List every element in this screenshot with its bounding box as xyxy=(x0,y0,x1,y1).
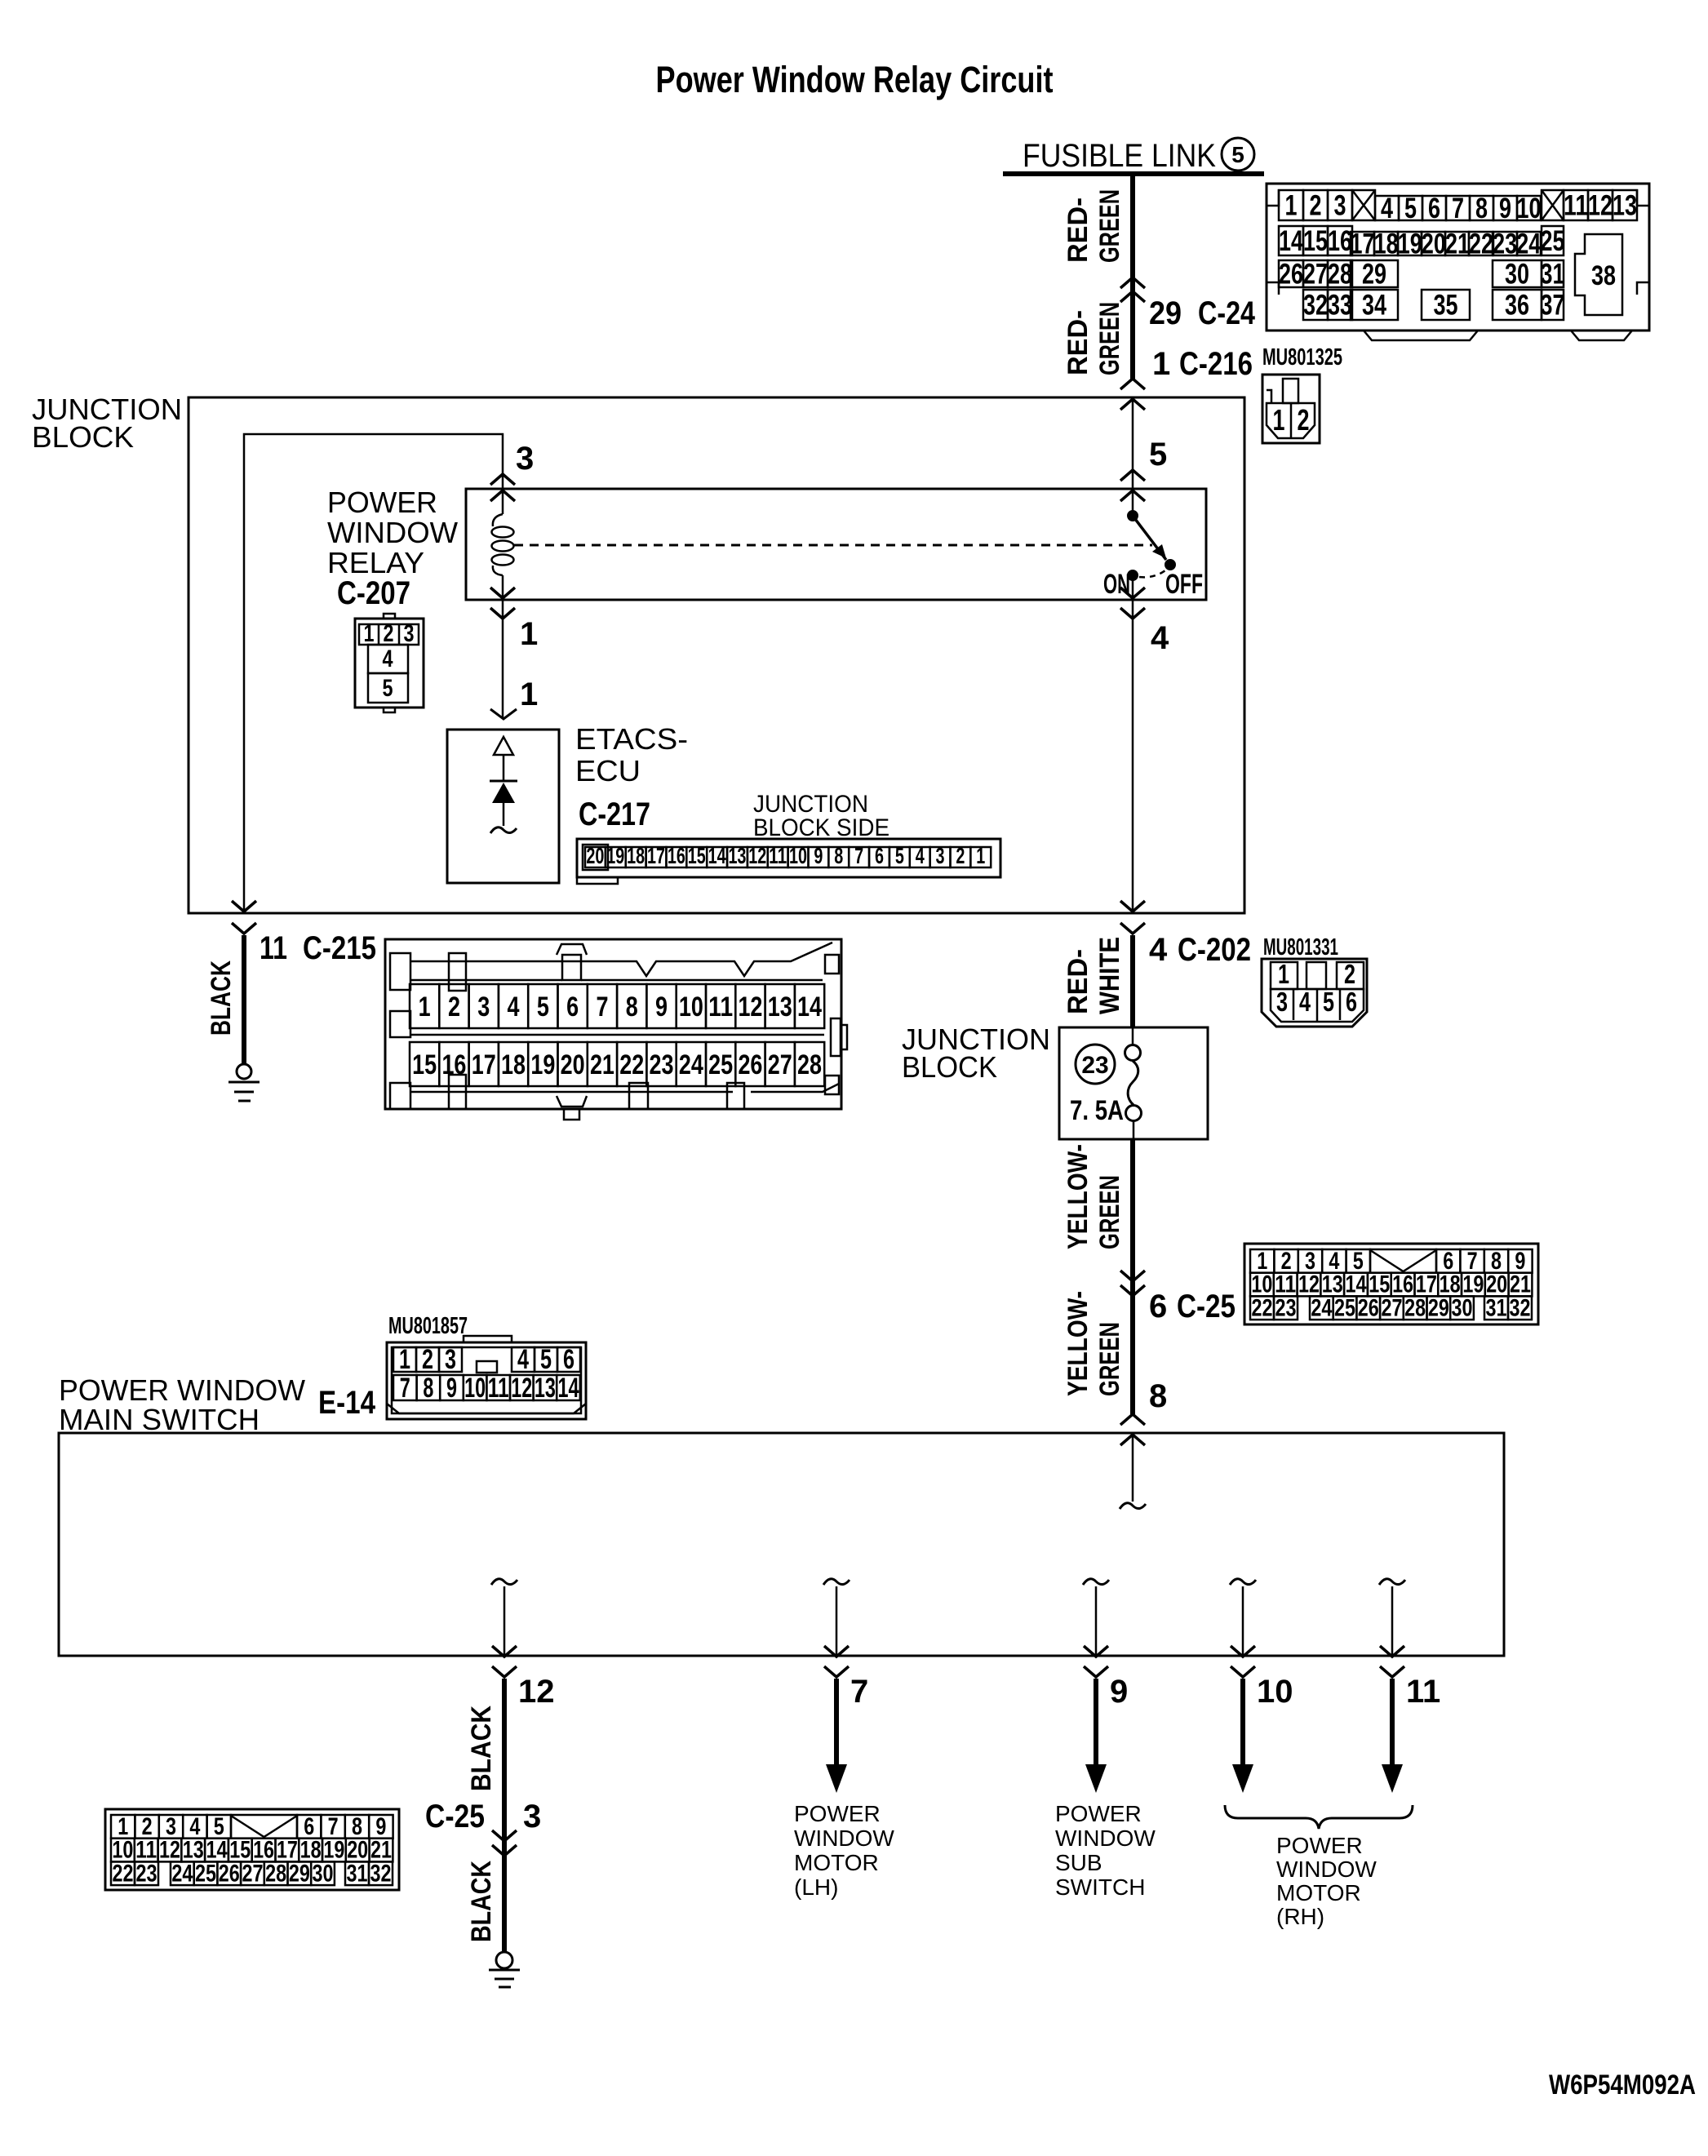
svg-text:12: 12 xyxy=(738,991,762,1023)
wire: C-202 pin 4 to fuse (RED-WHITE, thick) xyxy=(1130,935,1135,1027)
svg-text:2: 2 xyxy=(1310,190,1322,222)
ETACS internal: break squiggle xyxy=(490,827,517,833)
svg-text:MOTOR: MOTOR xyxy=(794,1850,879,1875)
ETACS internal: diode xyxy=(490,780,517,783)
svg-text:12: 12 xyxy=(1588,190,1613,222)
svg-text:22: 22 xyxy=(1252,1294,1273,1321)
svg-text:1: 1 xyxy=(364,620,375,647)
fuse element xyxy=(1132,1027,1134,1045)
svg-text:C-25: C-25 xyxy=(425,1799,485,1834)
svg-text:7: 7 xyxy=(400,1373,410,1404)
svg-text:25: 25 xyxy=(1334,1294,1355,1321)
svg-text:26: 26 xyxy=(1279,259,1303,291)
svg-text:BLACK: BLACK xyxy=(466,1706,497,1791)
svg-text:4: 4 xyxy=(1299,987,1311,1017)
main switch box bottom crossing chevrons (pin 7) xyxy=(824,1646,849,1657)
svg-text:WINDOW: WINDOW xyxy=(1276,1857,1377,1882)
svg-text:1: 1 xyxy=(1273,403,1285,437)
svg-text:28: 28 xyxy=(265,1860,286,1887)
svg-text:21: 21 xyxy=(590,1049,614,1080)
svg-text:5: 5 xyxy=(1323,987,1334,1017)
svg-text:RED-: RED- xyxy=(1063,949,1094,1014)
relay switch pivot xyxy=(1129,512,1138,521)
svg-text:1: 1 xyxy=(520,616,538,652)
svg-text:31: 31 xyxy=(1541,259,1565,291)
svg-text:1: 1 xyxy=(419,991,431,1023)
svg-text:7: 7 xyxy=(596,991,608,1023)
svg-text:22: 22 xyxy=(1469,228,1493,260)
svg-text:28: 28 xyxy=(1328,259,1352,291)
svg-text:(LH): (LH) xyxy=(794,1874,838,1900)
svg-text:29: 29 xyxy=(289,1860,310,1887)
svg-text:32: 32 xyxy=(1303,290,1328,322)
svg-text:3: 3 xyxy=(936,843,945,868)
svg-text:22: 22 xyxy=(113,1860,134,1887)
svg-text:WHITE: WHITE xyxy=(1094,937,1125,1014)
svg-text:30: 30 xyxy=(1505,259,1529,291)
svg-text:2: 2 xyxy=(384,620,394,647)
svg-text:BLOCK: BLOCK xyxy=(902,1050,997,1084)
svg-text:11: 11 xyxy=(1564,190,1588,222)
svg-text:9: 9 xyxy=(814,843,823,868)
ETACS-ECU box xyxy=(447,730,559,883)
junction block outline xyxy=(189,397,1244,913)
svg-text:12: 12 xyxy=(518,1674,555,1710)
svg-text:6: 6 xyxy=(563,1344,575,1375)
svg-text:16: 16 xyxy=(668,843,685,868)
wire: pin 8 stub inside main switch xyxy=(1132,1433,1134,1502)
svg-text:WINDOW: WINDOW xyxy=(794,1826,894,1851)
svg-text:11: 11 xyxy=(260,930,287,966)
connector E-14 MU801857 drawing xyxy=(387,1336,586,1419)
svg-text:32: 32 xyxy=(1510,1294,1531,1321)
svg-text:C-202: C-202 xyxy=(1178,932,1251,968)
svg-text:FUSIBLE LINK: FUSIBLE LINK xyxy=(1023,138,1216,174)
svg-text:15: 15 xyxy=(412,1049,437,1080)
svg-text:13: 13 xyxy=(728,843,746,868)
ground symbol (left) xyxy=(237,1064,251,1079)
svg-text:4: 4 xyxy=(1381,193,1393,224)
power window relay box xyxy=(466,489,1206,600)
svg-text:ON: ON xyxy=(1103,569,1130,600)
svg-text:3: 3 xyxy=(404,620,415,647)
wire: main switch internal stub pin 11 xyxy=(1379,1579,1405,1585)
relay box bottom crossing chevrons (pin 1) xyxy=(490,588,515,598)
main switch box bottom crossing chevrons (pin 9) xyxy=(1084,1646,1108,1657)
wire: main switch internal stub pin 12 xyxy=(491,1579,517,1585)
svg-text:(RH): (RH) xyxy=(1276,1904,1324,1929)
svg-text:4: 4 xyxy=(916,843,925,868)
relay box bottom crossing chevrons (pin 4) xyxy=(1120,588,1145,598)
svg-text:5: 5 xyxy=(1404,193,1417,224)
svg-text:17: 17 xyxy=(1351,228,1375,260)
wire: main switch internal stub pin 9 xyxy=(1083,1579,1109,1585)
svg-text:6: 6 xyxy=(1346,987,1357,1017)
connector C-216 MU801325 drawing xyxy=(1262,375,1320,443)
relay coil-to-switch dashed link xyxy=(514,544,1152,547)
relay box top edge crossing chevrons (pin 5) xyxy=(1120,470,1145,481)
svg-text:BLACK: BLACK xyxy=(466,1861,497,1942)
relay coil xyxy=(502,489,504,514)
svg-text:29: 29 xyxy=(1149,295,1182,331)
svg-text:4: 4 xyxy=(517,1344,529,1375)
svg-text:GREEN: GREEN xyxy=(1094,302,1125,375)
svg-text:BLACK: BLACK xyxy=(206,960,237,1036)
svg-text:MOTOR: MOTOR xyxy=(1276,1880,1361,1905)
svg-text:10: 10 xyxy=(679,991,703,1023)
svg-text:SWITCH: SWITCH xyxy=(1055,1874,1145,1900)
svg-text:36: 36 xyxy=(1505,290,1529,322)
svg-text:5: 5 xyxy=(383,675,393,702)
svg-text:2: 2 xyxy=(1298,403,1310,437)
svg-text:8: 8 xyxy=(1149,1378,1167,1414)
svg-text:5: 5 xyxy=(1149,437,1167,472)
svg-text:25: 25 xyxy=(708,1049,733,1080)
svg-text:GREEN: GREEN xyxy=(1094,189,1125,263)
svg-text:3: 3 xyxy=(445,1344,456,1375)
svg-text:35: 35 xyxy=(1434,290,1458,322)
svg-text:10: 10 xyxy=(789,843,807,868)
svg-text:BLOCK SIDE: BLOCK SIDE xyxy=(753,814,889,841)
svg-text:25: 25 xyxy=(195,1860,216,1887)
svg-text:14: 14 xyxy=(708,843,726,868)
svg-text:8: 8 xyxy=(626,991,638,1023)
svg-text:24: 24 xyxy=(1516,228,1541,260)
svg-text:Power Window Relay Circuit: Power Window Relay Circuit xyxy=(656,59,1054,100)
svg-text:24: 24 xyxy=(679,1049,703,1080)
svg-text:20: 20 xyxy=(1422,228,1446,260)
wire: pin 11 to body ground (BLACK, thick) xyxy=(242,935,246,1064)
svg-text:MU801325: MU801325 xyxy=(1262,344,1342,370)
svg-text:C-217: C-217 xyxy=(579,796,650,832)
svg-text:11: 11 xyxy=(769,843,787,868)
svg-text:14: 14 xyxy=(1279,225,1303,257)
wire: C-216 pin 1 to relay pin 5 xyxy=(1132,397,1134,489)
svg-text:28: 28 xyxy=(797,1049,822,1080)
svg-text:10: 10 xyxy=(1257,1674,1293,1710)
svg-text:2: 2 xyxy=(956,843,965,868)
svg-text:11: 11 xyxy=(708,991,733,1023)
relay box top edge crossing chevrons (pin 3) xyxy=(490,474,515,485)
svg-text:9: 9 xyxy=(1499,193,1511,224)
svg-text:9: 9 xyxy=(1110,1674,1128,1710)
svg-text:27: 27 xyxy=(242,1860,263,1887)
svg-text:C-25: C-25 xyxy=(1177,1289,1236,1324)
svg-text:POWER: POWER xyxy=(1276,1833,1363,1858)
main switch box bottom crossing chevrons (pin 10) xyxy=(1231,1646,1255,1657)
svg-text:7: 7 xyxy=(854,843,863,868)
junction block bottom crossing chevrons (pin 11) xyxy=(232,901,256,912)
svg-text:23: 23 xyxy=(136,1860,157,1887)
svg-text:4: 4 xyxy=(1151,620,1169,656)
connector C-202 MU801331 drawing xyxy=(1262,959,1367,1027)
svg-text:21: 21 xyxy=(1445,228,1470,260)
svg-text:C-216: C-216 xyxy=(1179,346,1253,382)
svg-text:5: 5 xyxy=(895,843,904,868)
relay OFF contact xyxy=(1166,561,1175,570)
svg-text:GREEN: GREEN xyxy=(1094,1322,1125,1396)
main switch box bottom crossing chevrons (pin 12) xyxy=(492,1646,517,1657)
svg-text:25: 25 xyxy=(1541,225,1565,257)
svg-text:23: 23 xyxy=(1493,228,1517,260)
svg-text:2: 2 xyxy=(1344,959,1355,989)
fusible link bus bar xyxy=(1003,171,1264,176)
svg-text:C-215: C-215 xyxy=(303,930,376,966)
svg-text:10: 10 xyxy=(464,1373,486,1404)
svg-text:6: 6 xyxy=(875,843,884,868)
wire: relay pin 1 to ETACS-ECU xyxy=(502,600,504,719)
wire: relay pin 3 branch (horizontal + left drop) xyxy=(244,434,503,913)
svg-text:18: 18 xyxy=(501,1049,526,1080)
ground symbol (bottom) xyxy=(496,1952,512,1968)
svg-text:MU801331: MU801331 xyxy=(1263,934,1338,960)
svg-text:POWER: POWER xyxy=(327,486,437,519)
fuse number circle 23 xyxy=(1076,1045,1115,1084)
svg-text:1: 1 xyxy=(976,843,985,868)
relay switch arm with arrowhead xyxy=(1133,516,1166,560)
svg-text:37: 37 xyxy=(1541,290,1565,322)
svg-text:BLOCK: BLOCK xyxy=(32,420,134,454)
svg-text:14: 14 xyxy=(797,991,822,1023)
svg-text:31: 31 xyxy=(347,1860,368,1887)
ETACS internal: open triangle xyxy=(494,737,513,755)
svg-text:23: 23 xyxy=(650,1049,674,1080)
svg-text:7: 7 xyxy=(1452,193,1464,224)
svg-text:19: 19 xyxy=(606,843,624,868)
svg-text:7. 5A: 7. 5A xyxy=(1070,1095,1124,1126)
svg-text:MU801857: MU801857 xyxy=(388,1313,468,1339)
wire: main switch internal stub pin 10 xyxy=(1230,1579,1256,1585)
brace grouping wires 10 and 11 xyxy=(1225,1805,1413,1829)
svg-text:28: 28 xyxy=(1404,1294,1426,1321)
svg-text:1: 1 xyxy=(1152,346,1170,382)
svg-text:C-207: C-207 xyxy=(337,575,410,611)
connector C-215 drawing xyxy=(385,939,847,1120)
svg-text:11: 11 xyxy=(1406,1674,1440,1710)
svg-text:WINDOW: WINDOW xyxy=(327,516,458,549)
svg-text:17: 17 xyxy=(647,843,665,868)
svg-text:RELAY: RELAY xyxy=(327,546,424,579)
junction block bottom crossing chevrons (pin 4 C-202) xyxy=(1120,901,1145,912)
connector crossing C-25 pin 3 (double chevron) xyxy=(492,1830,517,1841)
svg-text:23: 23 xyxy=(1275,1294,1297,1321)
wire: fuse to C-25 pin 6 (YELLOW-GREEN, thick) xyxy=(1130,1139,1135,1414)
svg-text:POWER: POWER xyxy=(794,1801,881,1826)
svg-text:5: 5 xyxy=(540,1344,552,1375)
svg-text:8: 8 xyxy=(834,843,843,868)
svg-text:11: 11 xyxy=(488,1373,509,1404)
svg-text:13: 13 xyxy=(768,991,792,1023)
svg-text:3: 3 xyxy=(1276,987,1288,1017)
svg-text:1: 1 xyxy=(520,677,538,712)
svg-text:2: 2 xyxy=(422,1344,433,1375)
svg-text:24: 24 xyxy=(1311,1294,1332,1321)
svg-text:6: 6 xyxy=(566,991,579,1023)
svg-text:29: 29 xyxy=(1428,1294,1449,1321)
wire: pin 10 output arrow xyxy=(1240,1679,1245,1768)
connector crossing 6 C-25 (double chevron) xyxy=(1120,1271,1145,1281)
svg-text:4: 4 xyxy=(1149,932,1168,968)
svg-text:YELLOW-: YELLOW- xyxy=(1063,1291,1094,1396)
svg-text:27: 27 xyxy=(1303,259,1328,291)
svg-text:2: 2 xyxy=(448,991,460,1023)
connector C-217 strip drawing xyxy=(577,839,1000,884)
svg-text:12: 12 xyxy=(748,843,766,868)
svg-text:8: 8 xyxy=(423,1373,433,1404)
svg-text:3: 3 xyxy=(516,441,534,477)
main switch box top crossing chevrons (pin 8) xyxy=(1120,1414,1145,1425)
svg-text:6: 6 xyxy=(1428,193,1440,224)
connector C-25 drawing (bottom left) xyxy=(105,1809,399,1890)
svg-text:19: 19 xyxy=(1398,228,1422,260)
svg-text:RED-: RED- xyxy=(1063,310,1094,375)
svg-text:POWER: POWER xyxy=(1055,1801,1142,1826)
svg-text:4: 4 xyxy=(508,991,520,1023)
svg-text:OFF: OFF xyxy=(1165,569,1203,600)
dashed throw arc xyxy=(1139,570,1165,577)
svg-text:3: 3 xyxy=(477,991,490,1023)
wire: fusible link to C-24 pin 29 (RED-GREEN, thick) xyxy=(1130,174,1135,379)
svg-text:26: 26 xyxy=(219,1860,240,1887)
svg-text:30: 30 xyxy=(1452,1294,1473,1321)
svg-text:SUB: SUB xyxy=(1055,1850,1102,1875)
svg-text:E-14: E-14 xyxy=(318,1385,376,1421)
svg-text:32: 32 xyxy=(370,1860,392,1887)
connector crossing 29 C-24 / 1 C-216 (double chevron) xyxy=(1120,277,1145,288)
svg-text:30: 30 xyxy=(313,1860,334,1887)
svg-text:18: 18 xyxy=(1374,228,1399,260)
svg-text:14: 14 xyxy=(558,1373,579,1404)
svg-text:ECU: ECU xyxy=(575,754,641,787)
wire: pin 7 output arrow xyxy=(834,1679,839,1768)
connector C-24 pin layout drawing xyxy=(1267,184,1649,340)
junction block (fuse) box xyxy=(1059,1027,1208,1139)
svg-text:15: 15 xyxy=(1303,225,1328,257)
svg-text:9: 9 xyxy=(655,991,668,1023)
svg-text:16: 16 xyxy=(441,1049,466,1080)
svg-text:24: 24 xyxy=(171,1860,193,1887)
svg-text:5: 5 xyxy=(1231,142,1244,167)
svg-text:27: 27 xyxy=(768,1049,792,1080)
wire: ON contact to relay pin 4 xyxy=(1132,575,1134,600)
wire: pin 9 output arrow xyxy=(1094,1679,1098,1768)
wire: relay pin 4 down to junction block bottom xyxy=(1132,600,1134,913)
svg-text:22: 22 xyxy=(619,1049,644,1080)
svg-text:MAIN SWITCH: MAIN SWITCH xyxy=(59,1403,260,1436)
junction block top edge crossing chevrons xyxy=(1120,379,1145,389)
main switch box bottom crossing chevrons (pin 11) xyxy=(1380,1646,1404,1657)
svg-text:27: 27 xyxy=(1381,1294,1402,1321)
svg-text:19: 19 xyxy=(530,1049,555,1080)
svg-text:33: 33 xyxy=(1328,290,1352,322)
svg-text:17: 17 xyxy=(472,1049,496,1080)
svg-text:26: 26 xyxy=(738,1049,762,1080)
svg-text:C-24: C-24 xyxy=(1198,295,1256,331)
svg-text:4: 4 xyxy=(383,645,393,672)
svg-text:23: 23 xyxy=(1081,1052,1108,1079)
svg-text:15: 15 xyxy=(688,843,706,868)
svg-text:RED-: RED- xyxy=(1063,197,1094,263)
svg-text:8: 8 xyxy=(1475,193,1488,224)
svg-text:W6P54M092A: W6P54M092A xyxy=(1549,2069,1696,2101)
svg-text:10: 10 xyxy=(1517,193,1542,224)
svg-text:13: 13 xyxy=(1613,190,1637,222)
svg-text:12: 12 xyxy=(511,1373,532,1404)
svg-text:31: 31 xyxy=(1486,1294,1507,1321)
svg-text:ETACS-: ETACS- xyxy=(575,722,688,756)
svg-text:GREEN: GREEN xyxy=(1094,1175,1125,1249)
svg-text:3: 3 xyxy=(523,1799,541,1834)
wire: main switch internal stub pin 7 xyxy=(823,1579,850,1585)
svg-text:20: 20 xyxy=(586,843,604,868)
svg-text:29: 29 xyxy=(1362,259,1386,291)
svg-text:16: 16 xyxy=(1328,225,1352,257)
power window main switch box xyxy=(59,1433,1504,1656)
svg-text:YELLOW-: YELLOW- xyxy=(1063,1144,1094,1249)
wire: pin 12 to body ground (BLACK, thick) xyxy=(502,1679,507,1953)
svg-text:1: 1 xyxy=(1278,959,1289,989)
svg-text:1: 1 xyxy=(399,1344,410,1375)
svg-text:6: 6 xyxy=(1149,1289,1167,1324)
svg-text:1: 1 xyxy=(1285,190,1298,222)
svg-text:13: 13 xyxy=(535,1373,556,1404)
svg-text:9: 9 xyxy=(446,1373,457,1404)
svg-text:WINDOW: WINDOW xyxy=(1055,1826,1156,1851)
svg-text:3: 3 xyxy=(1334,190,1346,222)
relay ON contact xyxy=(1129,571,1138,580)
connector C-207 drawing xyxy=(355,614,424,712)
svg-text:34: 34 xyxy=(1362,290,1386,322)
connector C-25 drawing (upper right) xyxy=(1244,1244,1538,1324)
svg-text:18: 18 xyxy=(627,843,645,868)
arrowhead into ETACS-ECU xyxy=(490,709,517,719)
wire: pin 11 output arrow xyxy=(1390,1679,1395,1768)
svg-text:7: 7 xyxy=(850,1674,868,1710)
svg-text:26: 26 xyxy=(1358,1294,1379,1321)
svg-text:5: 5 xyxy=(537,991,549,1023)
svg-text:20: 20 xyxy=(561,1049,585,1080)
svg-text:POWER WINDOW: POWER WINDOW xyxy=(59,1373,305,1407)
svg-text:38: 38 xyxy=(1591,260,1616,291)
